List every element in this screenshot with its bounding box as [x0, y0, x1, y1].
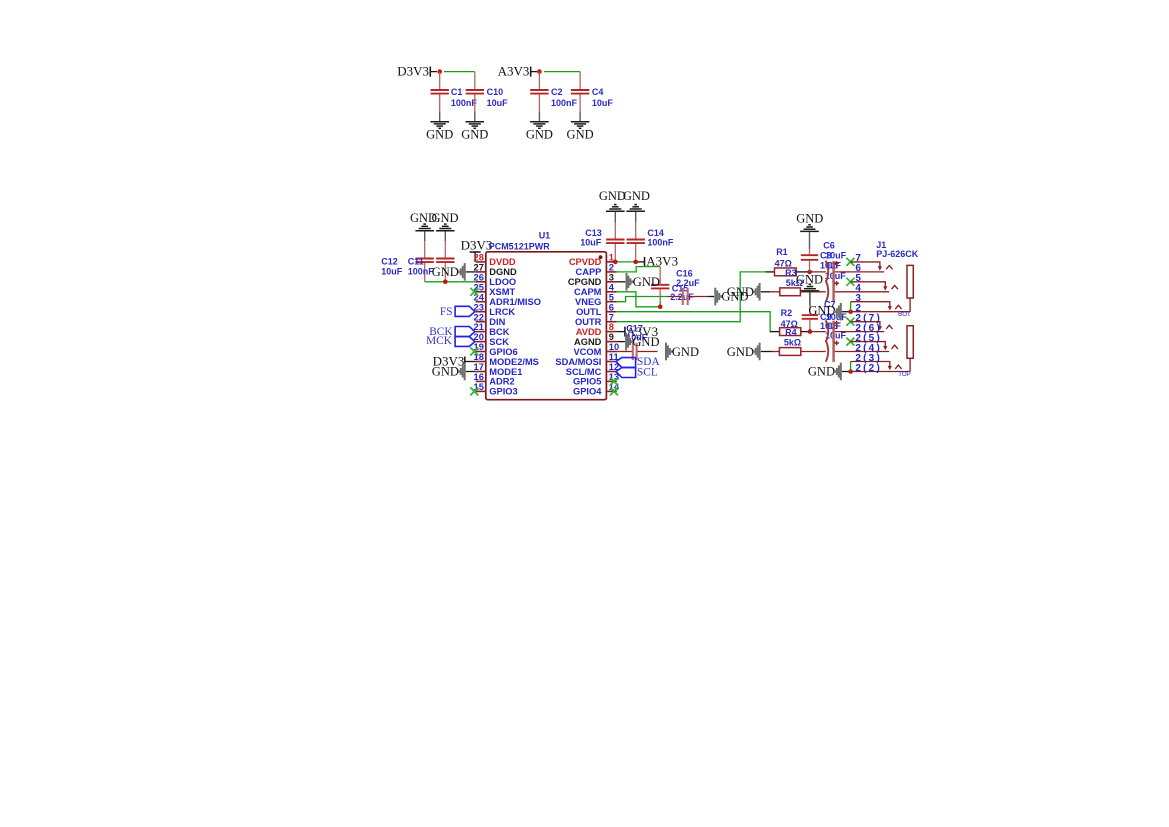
- svg-text:GND: GND: [632, 335, 659, 349]
- svg-text:VCOM: VCOM: [573, 347, 601, 357]
- wire CAPM: [617, 292, 659, 307]
- no-connect X pin13 GPIO5: [610, 377, 618, 385]
- svg-text:R3: R3: [785, 268, 797, 278]
- wire VNEG to C16: [617, 297, 668, 302]
- U1 left pin 21 BCK: [476, 331, 486, 333]
- ground at VCOM C17: [665, 343, 667, 361]
- wire LDOO net: [425, 281, 476, 283]
- U1 left pin 27 DGND: [476, 271, 486, 273]
- global label SCL: [616, 368, 636, 378]
- J1 sleeve barrel TOP: [907, 326, 913, 359]
- junction C14/CPVDD: [633, 260, 638, 265]
- svg-text:10uF: 10uF: [592, 98, 614, 108]
- junction at A3V3: [537, 69, 542, 74]
- J1 pin 2(2) wire: [851, 371, 911, 373]
- svg-text:BOT: BOT: [898, 311, 911, 318]
- J1 switch contact mark row6: [895, 305, 901, 309]
- svg-text:OUTL: OUTL: [576, 307, 602, 317]
- svg-text:MODE1: MODE1: [489, 367, 522, 377]
- svg-text:XSMT: XSMT: [489, 287, 515, 297]
- ground at pin9 AGND: [617, 341, 625, 343]
- svg-text:PCM5121PWR: PCM5121PWR: [489, 242, 551, 252]
- svg-text:A3V3: A3V3: [498, 64, 530, 79]
- ground below C2: [538, 111, 540, 121]
- U1 left pin 23 LRCK: [476, 311, 486, 313]
- no-connect X pin19 GPIO6: [470, 348, 478, 356]
- svg-text:16: 16: [474, 372, 484, 382]
- svg-text:GND: GND: [426, 127, 453, 141]
- U1 left pin 16 ADR2: [476, 380, 486, 382]
- svg-text:DIN: DIN: [489, 317, 505, 327]
- J1 switch contact mark row12: [895, 365, 901, 369]
- svg-text:R1: R1: [776, 247, 788, 257]
- J1 switch contact mark row10: [892, 345, 898, 349]
- wire OUTR: [617, 272, 766, 322]
- wire OUTL: [617, 312, 772, 332]
- power port D3V3 top: [429, 67, 431, 77]
- capacitor straight plate row4: [832, 281, 834, 302]
- U1 left pin 22 DIN: [476, 321, 486, 323]
- svg-text:R2: R2: [781, 308, 793, 318]
- svg-text:7: 7: [609, 312, 614, 322]
- svg-text:100nF: 100nF: [451, 98, 478, 108]
- svg-text:LDOO: LDOO: [489, 277, 516, 287]
- global label MCK: [455, 337, 475, 347]
- svg-text:SCL: SCL: [637, 366, 658, 378]
- svg-text:TOP: TOP: [898, 371, 911, 378]
- U1 left pin 25 XSMT: [476, 291, 486, 293]
- svg-text:GND: GND: [431, 211, 458, 225]
- svg-text:18: 18: [474, 352, 484, 362]
- svg-text:CPGND: CPGND: [568, 277, 602, 287]
- J1 pin 7: [846, 258, 854, 266]
- wire C15 to junction: [659, 301, 661, 307]
- svg-text:2(2): 2(2): [855, 363, 882, 374]
- power port A3V3 pin8: [617, 331, 625, 333]
- svg-text:10uF: 10uF: [487, 98, 509, 108]
- svg-text:DVDD: DVDD: [489, 257, 516, 267]
- U1 right pin 5 VNEG: [606, 301, 616, 303]
- wire C9 to jack pin 2(6): [835, 331, 885, 333]
- U1 right pin 6 OUTL: [606, 311, 616, 313]
- capacitor C15: [659, 267, 661, 284]
- polarity + mark row10: [834, 342, 839, 344]
- U1 left pin 28 DVDD: [476, 261, 486, 263]
- U1 left pin 18 MODE2/MS: [476, 361, 486, 363]
- svg-text:OUTR: OUTR: [575, 317, 602, 327]
- svg-text:27: 27: [474, 263, 484, 273]
- svg-text:23: 23: [474, 302, 484, 312]
- J1 sleeve barrel BOT: [907, 265, 913, 298]
- svg-text:ADR2: ADR2: [489, 377, 514, 387]
- svg-text:AVDD: AVDD: [576, 327, 602, 337]
- resistor R4: [772, 351, 780, 353]
- svg-text:DGND: DGND: [489, 267, 517, 277]
- capacitor straight plate row8: [832, 321, 834, 342]
- junction C13/CPVDD: [613, 260, 618, 265]
- capacitor C16: [668, 296, 682, 298]
- J1 pin 2(7): [846, 318, 854, 326]
- capacitor C2: [538, 72, 540, 90]
- svg-text:GPIO4: GPIO4: [573, 387, 602, 397]
- wire D3V3 to C1/C10: [431, 71, 437, 73]
- wire A3V3 to C2/C4: [531, 71, 537, 73]
- global label BCK: [455, 327, 475, 337]
- svg-text:9: 9: [609, 332, 614, 342]
- svg-text:6: 6: [609, 302, 614, 312]
- svg-text:BCK: BCK: [489, 327, 509, 337]
- global label SDA: [616, 358, 636, 368]
- wire jack pin 2(3) riser: [850, 362, 852, 372]
- capacitor C4: [579, 72, 581, 90]
- junction jack pin 2(2): [848, 369, 853, 374]
- capacitor straight plate row10: [832, 341, 834, 362]
- ground below C4: [579, 111, 581, 121]
- U1 left pin 15 GPIO3: [476, 390, 486, 392]
- svg-text:GND: GND: [567, 127, 594, 141]
- svg-text:LRCK: LRCK: [489, 307, 515, 317]
- svg-text:C1: C1: [451, 87, 463, 97]
- svg-text:GND: GND: [727, 285, 754, 299]
- U1 pin1 marker dot: [599, 255, 603, 259]
- polarity + mark row2: [834, 262, 839, 264]
- svg-text:10uF: 10uF: [381, 266, 403, 276]
- svg-text:100nF: 100nF: [647, 237, 674, 247]
- U1 right pin 8 AVDD: [606, 331, 616, 333]
- ground below C10: [474, 111, 476, 121]
- svg-text:2: 2: [609, 263, 614, 273]
- junction node A: [807, 270, 812, 275]
- svg-text:GPIO3: GPIO3: [489, 387, 517, 397]
- J1 pin 5: [846, 278, 854, 286]
- capacitor curved plate row10: [826, 340, 829, 362]
- capacitor curved plate row4: [826, 281, 829, 303]
- svg-text:GND: GND: [526, 127, 553, 141]
- svg-text:2.2uF: 2.2uF: [676, 278, 700, 288]
- svg-text:GND: GND: [633, 275, 660, 289]
- svg-text:PJ-626CK: PJ-626CK: [876, 249, 919, 259]
- svg-text:21: 21: [474, 322, 484, 332]
- wire jack pin3 riser: [850, 302, 852, 312]
- svg-text:22: 22: [474, 312, 484, 322]
- capacitor C13: [614, 223, 616, 239]
- svg-text:D3V3: D3V3: [397, 64, 429, 79]
- J1 pin 2(5): [846, 338, 854, 346]
- op-amp U1 PCM5121PWR body: [486, 252, 607, 400]
- svg-text:GPIO5: GPIO5: [573, 377, 601, 387]
- svg-text:C12: C12: [381, 257, 398, 267]
- J1 switch contact mark row2: [886, 266, 892, 270]
- U1 right pin 7 OUTR: [606, 321, 616, 323]
- svg-text:3: 3: [609, 272, 614, 282]
- U1 right pin 10 VCOM: [606, 351, 616, 353]
- svg-text:GND: GND: [808, 365, 835, 379]
- svg-text:GND: GND: [672, 345, 699, 359]
- svg-text:5: 5: [609, 292, 614, 302]
- U1 left pin 20 SCK: [476, 341, 486, 343]
- svg-text:C2: C2: [551, 87, 563, 97]
- svg-text:D3V3: D3V3: [461, 238, 493, 253]
- svg-text:10uF: 10uF: [825, 250, 847, 260]
- power port A3V3 pin1: [644, 257, 646, 267]
- capacitor C11: [444, 241, 446, 257]
- capacitor C6: [809, 249, 811, 254]
- svg-text:GND: GND: [727, 345, 754, 359]
- svg-text:10: 10: [609, 342, 619, 352]
- wire C3 to jack pin 2(4): [835, 351, 889, 353]
- J1 pin 2 wire: [851, 311, 911, 313]
- svg-text:5kΩ: 5kΩ: [784, 338, 801, 348]
- wire C5 to jack pin4: [835, 291, 889, 293]
- svg-text:MODE2/MS: MODE2/MS: [489, 357, 539, 367]
- svg-text:GND: GND: [432, 365, 459, 379]
- svg-text:28: 28: [474, 253, 484, 263]
- U1 left pin 24 ADR1/MISO: [476, 301, 486, 303]
- wire node B to C9: [810, 331, 826, 333]
- no-connect X pin15 GPIO3: [470, 387, 478, 395]
- capacitor straight plate row2: [832, 261, 834, 282]
- svg-text:26: 26: [474, 272, 484, 282]
- J1 switch contact mark row4: [892, 285, 898, 289]
- svg-text:C6: C6: [823, 241, 835, 251]
- junction jack pin2: [848, 309, 853, 314]
- svg-text:CAPM: CAPM: [574, 287, 602, 297]
- resistor R3: [770, 291, 780, 293]
- svg-text:100nF: 100nF: [408, 266, 435, 276]
- svg-text:FS: FS: [440, 306, 453, 318]
- U1 right pin 12 SCL/MC: [606, 371, 616, 373]
- svg-text:20: 20: [474, 332, 484, 342]
- svg-text:GND: GND: [461, 127, 488, 141]
- svg-text:SCL/MC: SCL/MC: [566, 367, 602, 377]
- resistor R1: [766, 271, 775, 273]
- polarity + mark row4: [834, 282, 839, 284]
- svg-text:GND: GND: [432, 265, 459, 279]
- wire node A to C8: [810, 271, 826, 273]
- svg-text:CPVDD: CPVDD: [569, 257, 602, 267]
- U1 right pin 14 GPIO4: [606, 390, 616, 392]
- junction C11/LDOO: [443, 280, 448, 285]
- capacitor C10: [474, 72, 476, 90]
- ground below C1: [439, 111, 441, 121]
- svg-text:4: 4: [609, 282, 615, 292]
- J1 pin 3: [851, 302, 890, 307]
- svg-text:VNEG: VNEG: [575, 297, 601, 307]
- J1 switch contact mark row8: [886, 325, 892, 329]
- svg-text:GPIO6: GPIO6: [489, 347, 517, 357]
- svg-text:17: 17: [474, 362, 484, 372]
- capacitor C14: [635, 223, 637, 239]
- svg-text:CAPP: CAPP: [576, 267, 602, 277]
- no-connect X pin14 GPIO4: [610, 387, 618, 395]
- capacitor curved plate row8: [826, 320, 829, 342]
- svg-text:GND: GND: [623, 189, 650, 203]
- svg-text:U1: U1: [539, 231, 551, 241]
- U1 left pin 19 GPIO6: [476, 351, 486, 353]
- wire CPVDD to A3V3: [617, 261, 637, 263]
- svg-text:GND: GND: [796, 211, 823, 225]
- junction at D3V3: [437, 69, 442, 74]
- svg-text:SCK: SCK: [489, 337, 509, 347]
- power port A3V3 top: [530, 67, 532, 77]
- capacitor curved plate row2: [826, 261, 829, 283]
- U1 left pin 17 MODE1: [476, 371, 486, 373]
- svg-text:100nF: 100nF: [551, 98, 578, 108]
- svg-text:C10: C10: [487, 87, 504, 97]
- polarity + mark row8: [834, 322, 839, 324]
- J1 pin 2(3): [851, 362, 890, 367]
- global label FS: [455, 306, 475, 316]
- svg-text:C11: C11: [408, 257, 424, 267]
- wire CAPP to C15: [617, 267, 660, 272]
- svg-text:R4: R4: [785, 327, 797, 337]
- U1 right pin 3 CPGND: [606, 281, 616, 283]
- capacitor C7: [809, 292, 811, 306]
- resistor R2: [770, 331, 780, 333]
- U1 right pin 1 CPVDD: [606, 261, 616, 263]
- wire C8 to jack pin6: [835, 271, 885, 273]
- U1 right pin 2 CAPP: [606, 271, 616, 273]
- svg-text:C4: C4: [592, 87, 604, 97]
- U1 right pin 13 GPIO5: [606, 380, 616, 382]
- svg-text:ADR1/MISO: ADR1/MISO: [489, 297, 541, 307]
- capacitor C12: [424, 241, 426, 257]
- U1 right pin 11 SDA/MOSI: [606, 361, 616, 363]
- ground at C16: [708, 296, 714, 298]
- svg-text:AGND: AGND: [574, 337, 602, 347]
- svg-text:C16: C16: [676, 268, 693, 278]
- svg-text:GND: GND: [808, 304, 835, 318]
- svg-text:8: 8: [609, 322, 614, 332]
- U1 right pin 4 CAPM: [606, 291, 616, 293]
- capacitor C1: [439, 72, 441, 90]
- svg-text:SDA/MOSI: SDA/MOSI: [555, 357, 601, 367]
- U1 left pin 26 LDOO: [476, 281, 486, 283]
- no-connect X pin25 XSMT: [470, 288, 478, 296]
- ground at pin3 CPGND: [617, 281, 626, 283]
- junction node B: [808, 329, 813, 334]
- svg-text:MCK: MCK: [426, 335, 453, 347]
- U1 right pin 9 AGND: [606, 341, 616, 343]
- junction CAPM/C15: [658, 305, 663, 310]
- capacitor C17: [617, 351, 632, 353]
- svg-text:10uF: 10uF: [580, 237, 602, 247]
